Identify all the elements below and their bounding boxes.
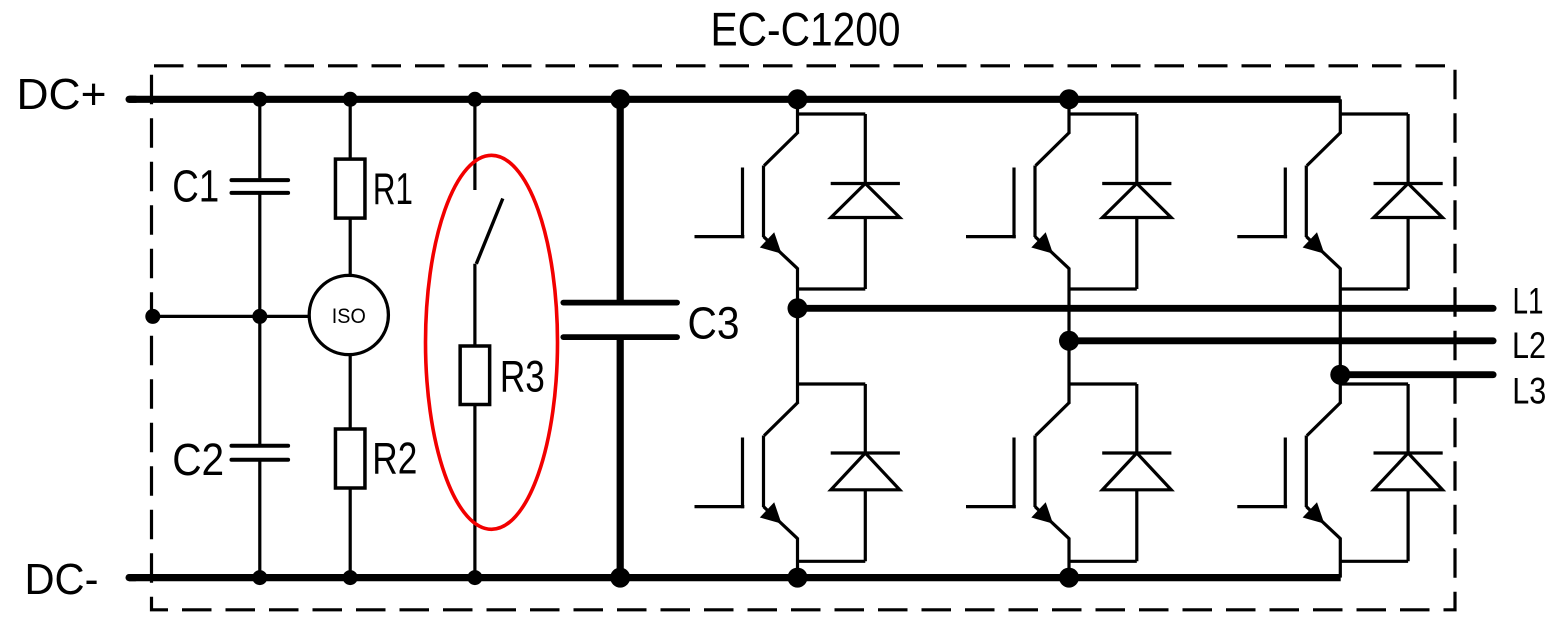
transistor Q3L emitter with arrow [1306,507,1340,539]
junction DC+ / C3 [610,89,630,109]
transistor Q2H emitter with arrow [1035,237,1069,269]
wire C1 bottom plate to C2 top plate (through midpoint node) [258,195,261,446]
junction midpoint node on C1-C2 branch [252,309,267,324]
transistor Q3H IGBT [1307,132,1341,166]
wire R2 to DC- rail [349,488,352,578]
wire phase node to lower IGBT leg 2 [1067,341,1070,384]
junction DC- / discharge branch [467,570,482,585]
transistor Q1H emitter with arrow [764,237,798,269]
svg-text:C3: C3 [688,298,740,349]
svg-text:DC+: DC+ [17,71,107,119]
transistor Q1L IGBT [764,402,798,436]
wire phase line L2 [1069,337,1493,344]
resistor R2 [335,429,365,488]
junction DC+ / leg 2 [1059,89,1079,109]
wire DC+ rail into upper IGBT leg 3 [1339,99,1342,114]
wire DC+ rail to C1 top plate [258,99,261,178]
junction DC+ / R1 branch [343,92,358,107]
wire Q2H collector branch [1069,112,1137,115]
wire Q1H collector branch [798,112,866,115]
junction DC+ / leg 1 [788,89,808,109]
transistor Q2L emitter with arrow [1035,507,1069,539]
svg-text:L1: L1 [1513,281,1544,322]
wire ISO to R2 [349,354,352,429]
diode D3L (antiparallel) [1406,384,1409,453]
wire Q2H emitter to output [1067,268,1070,341]
wire C2 bottom plate to DC- rail [258,460,261,578]
module boundary EC-C1200 (dashed box) [152,66,1456,610]
wire Q3H emitter to output [1339,268,1342,375]
node phase output L1 [788,298,808,318]
transistor Q3L IGBT [1307,402,1341,436]
wire Q1L collector branch [798,382,866,385]
wire Q3H collector branch [1340,112,1408,115]
capacitor C2 [232,444,289,448]
transistor Q2L IGBT [1036,402,1070,436]
wire phase node to lower IGBT leg 1 [796,308,799,384]
diode D1L (antiparallel) [864,384,867,453]
wire DC+ rail to C3 (thick) [617,99,624,300]
wire DC+ rail to switch top contact [473,99,476,190]
highlight ellipse (red) around switch and R3 [426,155,558,529]
junction DC- / C3 [610,568,630,588]
svg-text:ISO: ISO [332,304,366,328]
transistor Q1H IGBT [764,132,798,166]
svg-text:C1: C1 [172,160,219,211]
node phase output L3 [1330,365,1350,385]
junction DC+ / discharge branch [467,92,482,107]
svg-text:EC-C1200: EC-C1200 [711,3,901,56]
wire Q3L emitter to output [1339,538,1342,578]
svg-text:L3: L3 [1512,371,1546,412]
wire R1 to ISO [349,218,352,276]
wire phase node to lower IGBT leg 3 [1339,375,1342,384]
wire R3 to DC- rail [473,405,476,578]
node midpoint sense terminal on border [145,309,160,324]
svg-text:C2: C2 [172,434,224,485]
transistor Q2H IGBT [1036,132,1070,166]
isolation monitor ISO (circle) [309,275,388,354]
junction DC+ / C1 branch [252,92,267,107]
node phase output L2 [1059,331,1079,351]
junction DC- / C2 branch [252,570,267,585]
wire DC+ rail [129,96,1341,103]
diode D3H (antiparallel) [1406,114,1409,184]
svg-text:DC-: DC- [25,556,99,604]
wire phase line L3 [1340,371,1493,378]
transistor Q3H emitter with arrow [1306,237,1340,269]
wire Q2L gate lead [966,505,1016,508]
wire Q3L collector branch [1340,382,1408,385]
capacitor C3 [563,300,677,306]
wire Q2L collector branch [1069,382,1137,385]
diode D1H (antiparallel) [864,114,867,184]
wire midpoint sense line (border to ISO) [153,315,311,318]
diode D2H (antiparallel) [1135,114,1138,184]
resistor R1 [335,159,365,218]
diode D2L (antiparallel) [1135,384,1138,453]
wire DC+ rail into upper IGBT leg 1 [796,99,799,114]
wire Q1H gate lead [695,235,745,238]
wire Q1H emitter to output [796,268,799,309]
svg-text:R3: R3 [500,352,545,401]
wire Q2L emitter to output [1067,538,1070,578]
junction DC- / R2 branch [343,570,358,585]
junction DC- / leg 2 [1059,568,1079,588]
wire Q1L gate lead [695,505,745,508]
svg-text:L2: L2 [1512,325,1546,366]
wire Q3L gate lead [1237,505,1287,508]
capacitor C1 [232,178,289,182]
wire Q3H gate lead [1237,235,1287,238]
wire C3 to DC- rail (thick) [617,339,624,577]
transistor Q1L emitter with arrow [764,507,798,539]
svg-text:R2: R2 [372,434,417,483]
switch S1 blade (open) [476,199,503,264]
svg-text:R1: R1 [373,165,413,214]
wire DC+ rail into upper IGBT leg 2 [1067,99,1070,114]
junction DC- / leg 1 [788,568,808,588]
wire DC+ rail to R1 [349,99,352,159]
wire Q1L emitter to output [796,538,799,578]
wire Q2H gate lead [966,235,1016,238]
resistor R3 [460,346,490,405]
wire switch bottom contact to R3 [473,264,476,347]
wire DC- rail [129,574,1341,581]
wire phase line L1 [798,305,1494,312]
